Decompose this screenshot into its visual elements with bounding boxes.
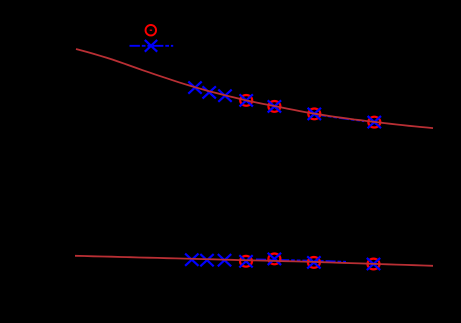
red circle markers, top curve — [240, 95, 380, 128]
blue x markers, bottom curve — [185, 253, 380, 270]
legend: red circle sample — [146, 25, 157, 36]
legend: blue dash-dot line sample — [130, 45, 174, 47]
blue dash-dot fit line, top curve — [316, 115, 364, 122]
red solid curve, bottom — [75, 256, 433, 266]
red circle markers, bottom curve — [240, 254, 380, 270]
legend: red center dash — [150, 30, 152, 31]
legend: blue x sample — [145, 40, 157, 52]
red solid curve, top — [76, 49, 433, 128]
blue dash-dot fit line, bottom curve — [256, 259, 346, 261]
blue x markers, top curve — [188, 82, 381, 129]
